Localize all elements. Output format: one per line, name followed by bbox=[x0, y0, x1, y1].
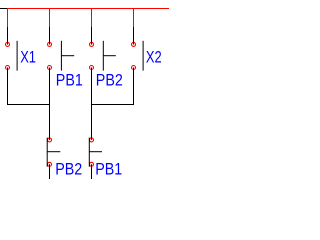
svg-text:PB2: PB2 bbox=[96, 72, 123, 90]
svg-text:X2: X2 bbox=[146, 49, 162, 67]
svg-text:X1: X1 bbox=[20, 49, 36, 67]
svg-text:PB1: PB1 bbox=[56, 72, 83, 90]
svg-text:PB1: PB1 bbox=[95, 161, 122, 179]
svg-text:PB2: PB2 bbox=[55, 161, 82, 179]
